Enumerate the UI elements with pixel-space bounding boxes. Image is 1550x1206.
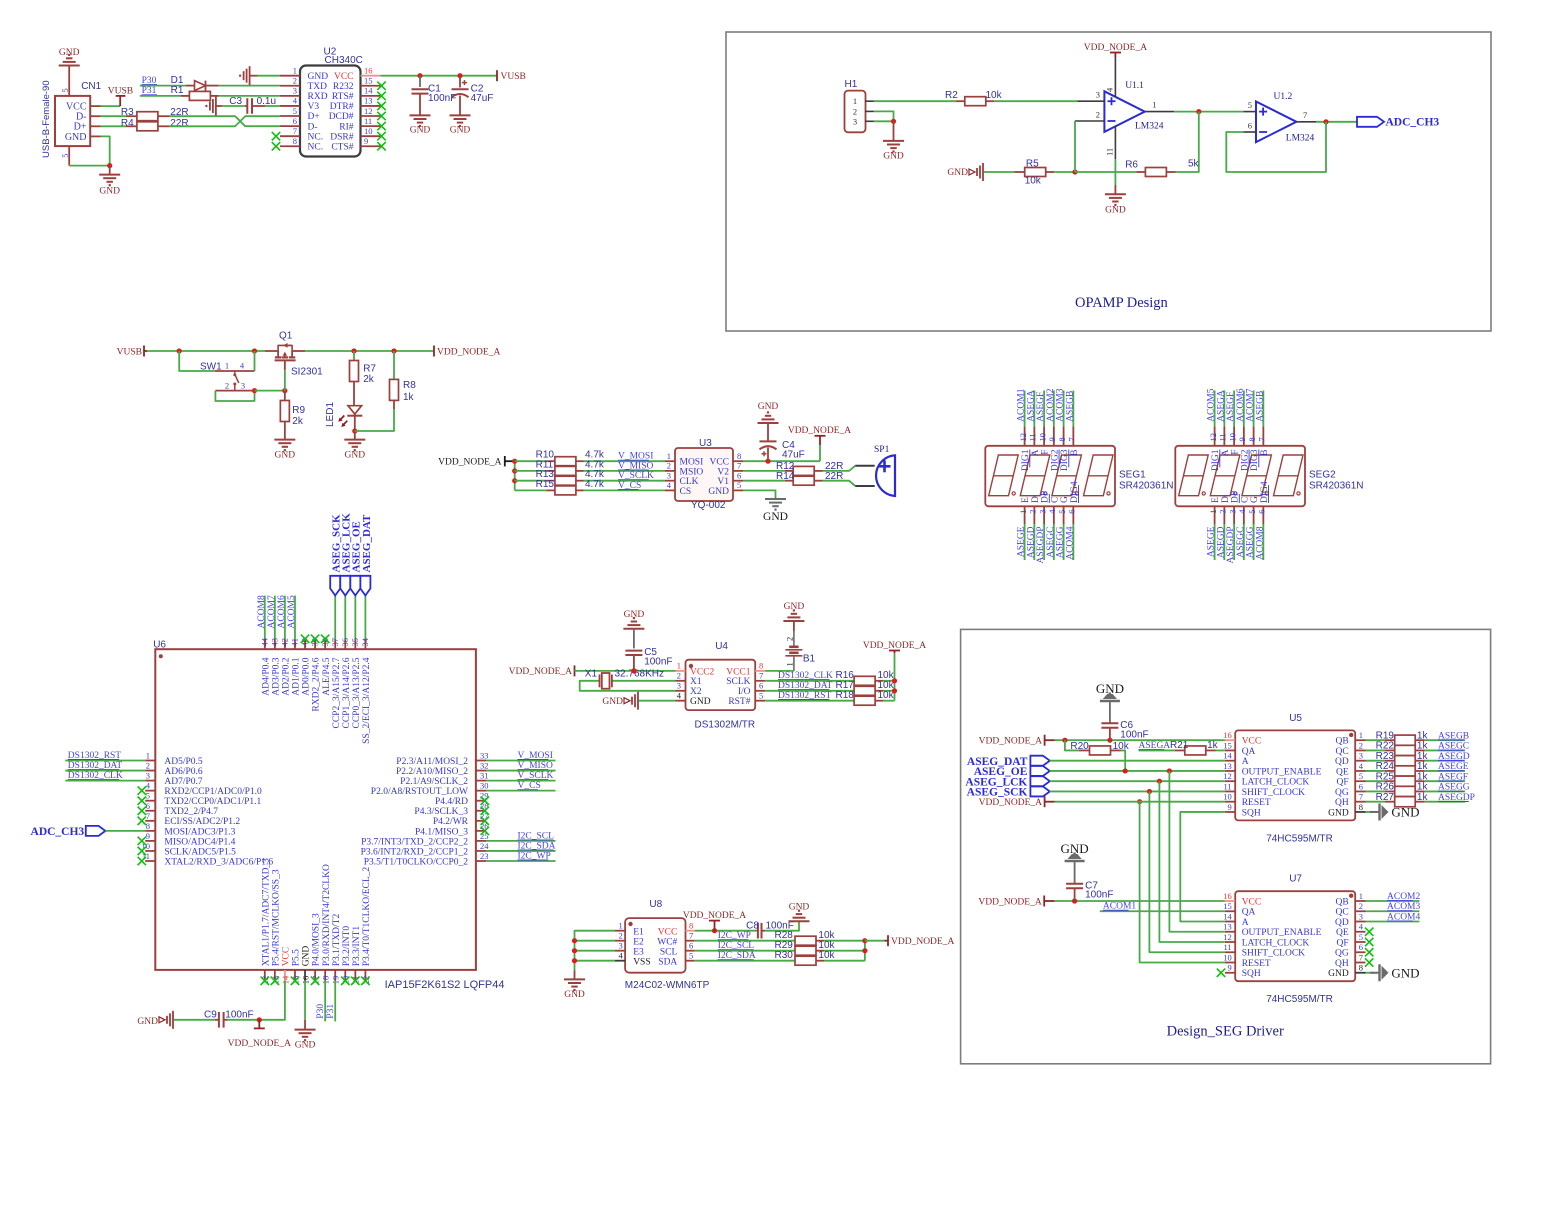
wire shield to GND junction (69, 165, 110, 167)
wire U2 VCC to VUSB (381, 75, 498, 77)
junction (252, 348, 257, 353)
pin 6 U6 (145, 810, 155, 812)
wire U3 VCC to C4 junction (743, 460, 820, 462)
svg-text:8: 8 (1359, 963, 1363, 973)
net port VDD_NODE_A above U8 (714, 921, 716, 931)
pin 13 U7 (1225, 931, 1235, 933)
svg-text:AD5/P0.5: AD5/P0.5 (164, 757, 203, 767)
svg-text:WC#: WC# (657, 937, 677, 947)
svg-text:GND: GND (758, 402, 779, 412)
IC U3 YQ-002 (675, 448, 733, 501)
svg-text:GND: GND (410, 126, 431, 136)
pin 4 U2 (280, 105, 300, 107)
svg-text:ACOM5: ACOM5 (287, 595, 297, 629)
svg-text:12: 12 (1208, 433, 1218, 442)
svg-text:SEG1: SEG1 (1119, 470, 1146, 481)
pin 2 U5 (1355, 749, 1365, 751)
pin 12 U7 (1225, 941, 1235, 943)
wire R2 to U1.1 + (994, 100, 1077, 102)
capacitor C7 100nF (1074, 861, 1076, 884)
svg-text:M24C02-WMN6TP: M24C02-WMN6TP (625, 980, 710, 991)
svg-text:QH: QH (1335, 798, 1349, 808)
wire / net label V_MOSI (486, 760, 556, 762)
pin 2 H1 (865, 110, 874, 112)
svg-text:GND: GND (275, 451, 296, 461)
wire / net label V_MISO (486, 770, 556, 772)
svg-text:ASEGG: ASEGG (1056, 526, 1066, 558)
svg-text:CTS#: CTS# (331, 142, 353, 152)
svg-text:E: E (1021, 497, 1031, 503)
net flag VDD_NODE_A (U7 VCC) (1043, 896, 1045, 907)
svg-text:D-: D- (308, 122, 318, 132)
svg-text:74HC595M/TR: 74HC595M/TR (1266, 833, 1333, 844)
resistor R26 1k to ASEGG (1366, 790, 1385, 792)
svg-text:VDD_NODE_A: VDD_NODE_A (437, 347, 500, 357)
pin 6 U1.2 (1243, 131, 1256, 133)
pin 9 SEG1 top (1053, 426, 1055, 445)
wire / net label ACOM6 (284, 596, 286, 640)
frame OPAMP Design (726, 32, 1491, 331)
svg-text:A: A (1242, 918, 1249, 928)
junction (572, 948, 577, 953)
svg-text:1: 1 (784, 662, 794, 666)
svg-text:1: 1 (1018, 510, 1028, 514)
pin 15 U2 (361, 85, 381, 87)
net flag VDD_NODE_A (U5 VCC) (1044, 735, 1046, 746)
pin 8 U3 (733, 460, 743, 462)
svg-text:ACOM7: ACOM7 (267, 595, 277, 629)
svg-text:10: 10 (1227, 433, 1237, 442)
pin 2 U3 (665, 470, 675, 472)
svg-text:RI#: RI# (339, 122, 354, 132)
pin 5 U1.2 (1243, 111, 1256, 113)
svg-text:10: 10 (1223, 792, 1232, 802)
junction (765, 459, 770, 464)
pin 3 U1.1 (1077, 100, 1104, 102)
svg-text:7: 7 (759, 671, 763, 681)
no-connect X (138, 857, 146, 865)
svg-text:QB: QB (1335, 737, 1348, 747)
wire R8 to LED cathode (355, 409, 394, 431)
pin 3 SEG1 bottom (1043, 506, 1045, 524)
svg-text:SEG2: SEG2 (1309, 470, 1336, 481)
svg-text:R6: R6 (1125, 160, 1138, 171)
pin 12 U6 bottom (264, 970, 266, 981)
svg-text:CLK: CLK (680, 477, 699, 487)
wire / net label I2C_WP (695, 940, 795, 942)
svg-text:SQH: SQH (1242, 969, 1261, 979)
IC U6 IAP15F2K61S2 LQFP44 (155, 649, 476, 970)
pin 3 U4 (676, 690, 686, 692)
svg-text:VDD_NODE_A: VDD_NODE_A (863, 641, 926, 651)
ground flag at C3 (205, 105, 207, 107)
svg-text:10k: 10k (1025, 176, 1042, 187)
pin 11 U5 (1225, 790, 1235, 792)
pin 14 U2 (361, 95, 381, 97)
pin 8 SEG2 top (1253, 426, 1255, 445)
pin 1 U6 (145, 760, 155, 762)
no-connect X (481, 817, 489, 825)
svg-text:VDD_NODE_A: VDD_NODE_A (891, 937, 954, 947)
svg-text:ASEGF: ASEGF (1036, 392, 1046, 422)
svg-text:P30: P30 (316, 1004, 326, 1019)
pin 32 U6 (476, 770, 486, 772)
pin CN1.5 bottom shield (68, 146, 70, 166)
svg-text:R18: R18 (836, 690, 855, 701)
pin 12 U2 (361, 115, 381, 117)
svg-text:LED1: LED1 (325, 402, 336, 427)
svg-text:GND: GND (1105, 206, 1126, 216)
wire R3 to crossover to U2 pin6 (170, 116, 280, 126)
wire H1.1 to R2 (874, 100, 956, 102)
svg-text:6: 6 (689, 941, 693, 951)
wire pin11 to GND crossing R5 net (1114, 159, 1116, 185)
wire D+ to R4 (101, 125, 127, 127)
speaker SP1 (855, 465, 874, 467)
svg-text:7: 7 (737, 461, 741, 471)
svg-text:ASEGE: ASEGE (1017, 526, 1027, 557)
junction (1323, 119, 1328, 124)
svg-text:7: 7 (1359, 792, 1363, 802)
pin 8 U6 (145, 830, 155, 832)
pin 44 U6 top (264, 639, 266, 649)
svg-text:G: G (1250, 496, 1260, 503)
wire feedback node down to R6 (1176, 112, 1199, 172)
svg-text:9: 9 (1227, 802, 1231, 812)
svg-text:ACOM3: ACOM3 (1056, 388, 1066, 422)
header H1 (845, 91, 866, 133)
svg-text:3: 3 (1227, 510, 1237, 514)
svg-text:ASEGDP: ASEGDP (1036, 527, 1046, 564)
wire / net label DS1302_RST (65, 760, 145, 762)
svg-text:4: 4 (1359, 761, 1364, 771)
svg-text:DCD#: DCD# (329, 112, 354, 122)
pin 2 U2 (280, 85, 300, 87)
svg-text:ACOM4: ACOM4 (1065, 526, 1075, 560)
svg-text:ASEGF: ASEGF (1226, 392, 1236, 422)
svg-text:100nF: 100nF (428, 93, 456, 104)
svg-text:ASEGC: ASEGC (1046, 527, 1056, 558)
svg-text:P3.3/INT1: P3.3/INT1 (352, 926, 362, 967)
svg-text:VDD_NODE_A: VDD_NODE_A (683, 911, 746, 921)
pin 11 U6 (145, 860, 155, 862)
pin 7 U2 (280, 135, 300, 137)
wire / net label DS1302_DAT (65, 770, 145, 772)
svg-text:X1: X1 (690, 677, 702, 687)
wire U6 VCC (pin14) to C9 node (259, 981, 285, 1020)
svg-text:QE: QE (1336, 928, 1349, 938)
pin 11 U1.1 (1114, 126, 1116, 160)
svg-text:6: 6 (1359, 942, 1363, 952)
wire Q1 drain to VDD_NODE_A (305, 350, 434, 352)
pin 29 U6 (476, 800, 486, 802)
wire / net label I2C_WP (486, 860, 556, 862)
wire U8 VCC to C8 (695, 930, 757, 932)
svg-text:ASEGC: ASEGC (1236, 527, 1246, 558)
net flag VDD_NODE_A (433, 346, 435, 357)
junction (1107, 738, 1112, 743)
svg-text:QC: QC (1335, 747, 1348, 757)
wire U6 GND (pin16) down (304, 981, 306, 1020)
port ADC_CH3 to U6 pin8 (86, 826, 106, 836)
svg-text:QD: QD (1335, 757, 1349, 767)
svg-text:3: 3 (677, 681, 681, 691)
junction (391, 348, 396, 353)
ground (gray) above C7 (1065, 860, 1085, 863)
resistor R15 4.7k (515, 489, 547, 491)
net flag VUSB at CN1 (116, 95, 126, 97)
svg-text:GND: GND (1328, 808, 1349, 818)
svg-text:ASEGG: ASEGG (1246, 526, 1256, 558)
capacitor C6 100nF (1109, 701, 1111, 723)
pin 36 U6 top (344, 639, 346, 649)
svg-text:4: 4 (1359, 922, 1364, 932)
svg-text:2: 2 (619, 931, 623, 941)
svg-text:9: 9 (146, 831, 150, 841)
svg-text:GND: GND (1391, 804, 1419, 819)
wire gnd to U2 pin1 (250, 75, 258, 77)
pin 11 SEG1 top (1033, 426, 1035, 445)
no-connect X (271, 977, 279, 985)
svg-text:P3.7/INT3/TXD_2/CCP2_2: P3.7/INT3/TXD_2/CCP2_2 (361, 837, 468, 847)
svg-text:8: 8 (759, 661, 763, 671)
svg-text:VDD_NODE_A: VDD_NODE_A (438, 457, 501, 467)
port ASEG_LCK (344, 596, 346, 640)
svg-text:RXD: RXD (308, 92, 328, 102)
wire CN1 shield pin to GND (68, 66, 70, 96)
svg-text:GND: GND (763, 511, 788, 523)
junction (572, 958, 577, 963)
svg-text:RESET: RESET (1242, 798, 1271, 808)
svg-text:VDD_NODE_A: VDD_NODE_A (509, 667, 572, 677)
pin 12 U5 (1225, 780, 1235, 782)
junction (631, 668, 636, 673)
svg-text:3: 3 (667, 471, 671, 481)
svg-text:CCP2_3/A15/P2.7: CCP2_3/A15/P2.7 (332, 657, 342, 728)
junction (862, 948, 867, 953)
pin 17 U6 bottom (314, 970, 316, 981)
svg-text:11: 11 (1218, 433, 1228, 441)
svg-text:100nF: 100nF (225, 1010, 253, 1021)
pin 10 U6 (145, 850, 155, 852)
svg-text:5: 5 (1247, 510, 1257, 514)
pin 3 SEG2 bottom (1233, 506, 1235, 524)
junction (512, 468, 517, 473)
svg-text:P3.1/TXD/T2: P3.1/TXD/T2 (332, 914, 342, 967)
svg-text:V3: V3 (308, 102, 320, 112)
pin 7 SEG2 top (1262, 426, 1264, 445)
svg-text:SDA: SDA (658, 957, 677, 967)
pin 19 U6 bottom (334, 970, 336, 981)
svg-text:D+: D+ (308, 112, 320, 122)
wire / net label V_MOSI (584, 460, 666, 462)
pin 7 U6 (145, 820, 155, 822)
junction (351, 348, 356, 353)
svg-text:MSIO: MSIO (680, 467, 704, 477)
svg-text:9: 9 (1227, 963, 1231, 973)
no-connect X (311, 977, 319, 985)
svg-text:D: D (1221, 496, 1231, 503)
svg-text:NC.: NC. (308, 142, 324, 152)
wire bundle LATCH_CLOCK to U7 (1159, 781, 1225, 942)
svg-text:3: 3 (1096, 90, 1100, 100)
svg-text:VCC: VCC (334, 72, 354, 82)
svg-text:41: 41 (290, 638, 300, 647)
svg-text:B1: B1 (803, 654, 816, 665)
svg-text:OPAMP Design: OPAMP Design (1075, 295, 1169, 311)
svg-text:2: 2 (293, 76, 297, 86)
svg-text:RXD2/CCP1/ADC0/P1.0: RXD2/CCP1/ADC0/P1.0 (164, 787, 262, 797)
svg-text:ASEGDP: ASEGDP (1226, 527, 1236, 564)
svg-text:USB-B-Female-90: USB-B-Female-90 (41, 80, 52, 158)
ground under H1 (893, 121, 895, 141)
svg-text:VDD_NODE_A: VDD_NODE_A (228, 1039, 291, 1049)
svg-text:2: 2 (1359, 901, 1363, 911)
pin 8 U4 (755, 670, 765, 672)
capacitor C9 100nF (174, 1019, 215, 1021)
wire / net label ACOM5 (294, 596, 296, 640)
svg-text:16: 16 (1223, 730, 1232, 740)
pin 2 U7 (1355, 910, 1365, 912)
svg-text:43: 43 (269, 638, 279, 647)
svg-text:23: 23 (480, 851, 489, 861)
port ASEG_SCK (334, 596, 336, 640)
svg-text:R232: R232 (333, 82, 354, 92)
wire / net label P30 (pin18) (324, 981, 326, 1022)
svg-text:35: 35 (350, 638, 360, 647)
svg-text:1: 1 (225, 360, 229, 370)
svg-text:R7: R7 (363, 364, 376, 375)
no-connect X (311, 635, 319, 643)
resistor R6 5k (1136, 171, 1145, 173)
junction (1147, 789, 1152, 794)
pin 16 U2 (361, 75, 381, 77)
svg-text:ASEGD: ASEGD (1026, 526, 1036, 558)
resistor R20 10k (1065, 740, 1079, 750)
pin 7 U7 (1355, 962, 1365, 964)
svg-text:13: 13 (1223, 922, 1232, 932)
svg-text:P3.4/T0/T1CLKO/ECL_2: P3.4/T0/T1CLKO/ECL_2 (362, 867, 372, 967)
pin CN1.3 D+ stub (90, 125, 100, 127)
svg-text:Design_SEG Driver: Design_SEG Driver (1167, 1024, 1284, 1040)
no-connect X (377, 132, 385, 140)
svg-text:LATCH_CLOCK: LATCH_CLOCK (1242, 938, 1310, 948)
svg-text:C8: C8 (746, 921, 759, 932)
svg-text:13: 13 (364, 96, 373, 106)
junction (892, 688, 897, 693)
svg-text:47uF: 47uF (782, 450, 805, 461)
svg-text:VDD_NODE_A: VDD_NODE_A (1084, 43, 1147, 53)
wire gnd flag to R5 (984, 171, 1015, 173)
svg-text:ASEGE: ASEGE (1207, 526, 1217, 557)
svg-text:11: 11 (1105, 148, 1115, 156)
svg-text:C9: C9 (204, 1010, 217, 1021)
wire P31 to R1 (140, 95, 181, 97)
svg-text:7: 7 (1257, 437, 1267, 441)
ground under U1.1 (1114, 185, 1116, 194)
svg-text:1: 1 (853, 96, 857, 106)
pin 11 U2 (361, 125, 381, 127)
svg-text:CCP0_3/A13/P2.5: CCP0_3/A13/P2.5 (352, 657, 362, 728)
wire ASEG_DAT to U5 (1050, 760, 1225, 762)
pin CN1.1 VCC stub (90, 105, 100, 107)
svg-text:34: 34 (360, 637, 370, 646)
svg-text:E3: E3 (633, 947, 644, 957)
svg-text:P3.5/T1/T0CLKO/CCP0_2: P3.5/T1/T0CLKO/CCP0_2 (364, 857, 468, 867)
pin 4 U3 (665, 489, 675, 491)
svg-text:A: A (1221, 449, 1231, 456)
power flag GND right of C8 (789, 920, 810, 922)
svg-text:VCC2: VCC2 (690, 667, 715, 677)
svg-text:TXD2/CCP0/ADC1/P1.1: TXD2/CCP0/ADC1/P1.1 (164, 797, 261, 807)
no-connect X (272, 132, 280, 140)
svg-text:AD2/P0.2: AD2/P0.2 (282, 657, 292, 696)
wire / net label ACOM8 (264, 596, 266, 640)
svg-text:5: 5 (1057, 510, 1067, 514)
pin 39 U6 top (314, 639, 316, 649)
svg-text:U5: U5 (1289, 713, 1302, 724)
wire / net label DS1302_CLK (765, 680, 854, 682)
svg-text:QA: QA (1242, 908, 1256, 918)
svg-text:U6: U6 (153, 640, 166, 651)
svg-text:VUSB: VUSB (501, 72, 526, 82)
svg-text:RXD2_2/P4.6: RXD2_2/P4.6 (312, 657, 322, 711)
svg-text:3: 3 (241, 381, 245, 391)
svg-text:SS_2/ECI_3/A12/P2.4: SS_2/ECI_3/A12/P2.4 (362, 657, 372, 744)
svg-text:1: 1 (146, 751, 150, 761)
pin 6 U7 (1355, 951, 1365, 953)
svg-text:7: 7 (689, 931, 693, 941)
svg-text:7: 7 (1359, 952, 1363, 962)
svg-text:ASEGB: ASEGB (1065, 391, 1075, 422)
wire U8 E1/E2/E3/VSS to GND (575, 931, 616, 971)
svg-text:R14: R14 (776, 471, 795, 482)
no-connect X (377, 112, 385, 120)
svg-text:QD: QD (1335, 918, 1349, 928)
svg-text:2: 2 (1028, 510, 1038, 514)
pin 6 U2 (280, 125, 300, 127)
wire U1.2 feedback (1226, 122, 1326, 172)
pin 18 U6 bottom (324, 970, 326, 981)
svg-text:V1: V1 (717, 477, 729, 487)
pin CN1.2 D- stub (90, 115, 100, 117)
svg-text:VDD_NODE_A: VDD_NODE_A (979, 737, 1042, 747)
svg-text:1k: 1k (1207, 740, 1219, 751)
svg-text:P2.0/A8/RSTOUT_LOW: P2.0/A8/RSTOUT_LOW (371, 787, 468, 797)
svg-text:6: 6 (293, 116, 297, 126)
net flag VDD_NODE_A right of U8 (887, 935, 889, 946)
wire junction to R6 (1075, 171, 1136, 173)
svg-text:GND: GND (883, 152, 904, 162)
IC U7 74HC595M/TR (1235, 891, 1355, 981)
wire U1.2 out to ADC_CH3 (1316, 121, 1357, 123)
pin 41 U6 top (294, 639, 296, 649)
net flag VDD_NODE_A (U3 pullups) (504, 456, 506, 466)
svg-text:3: 3 (1037, 510, 1047, 514)
svg-text:I/O: I/O (738, 687, 751, 697)
svg-text:8: 8 (689, 921, 693, 931)
ground flag at U2 pin1 (239, 75, 241, 77)
svg-text:3: 3 (1359, 751, 1363, 761)
svg-text:GND: GND (947, 168, 968, 178)
pin 14 U6 bottom (284, 970, 286, 981)
svg-text:7: 7 (146, 811, 150, 821)
pin 2 SEG1 bottom (1033, 506, 1035, 524)
svg-text:VCC: VCC (1242, 737, 1262, 747)
svg-text:CS: CS (680, 487, 692, 497)
svg-text:5: 5 (689, 951, 693, 961)
pin 5 U2 (280, 115, 300, 117)
